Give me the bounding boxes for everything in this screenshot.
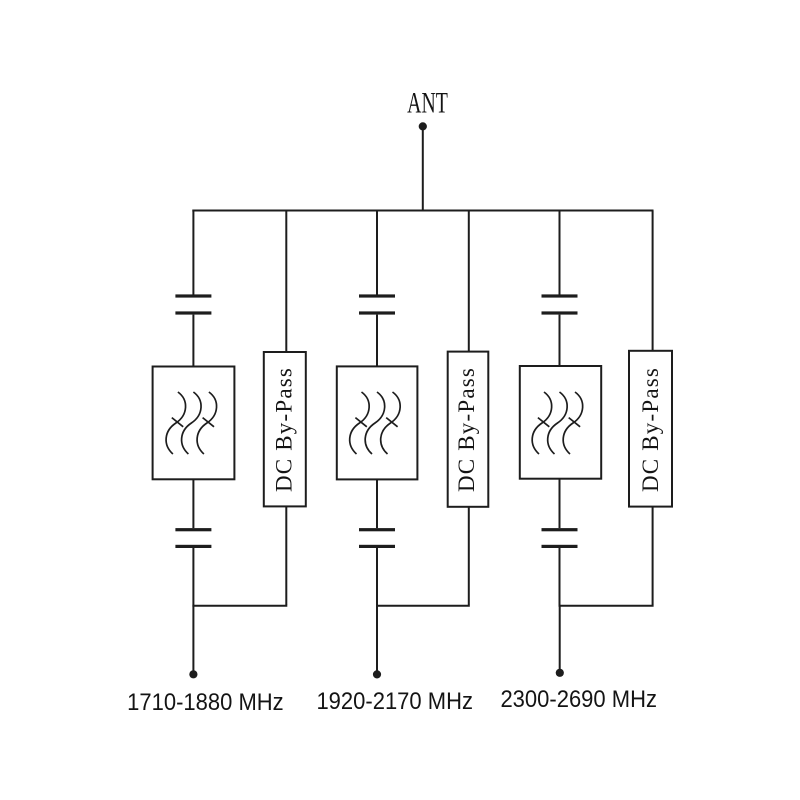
svg-text:DC By-Pass: DC By-Pass [272, 367, 297, 492]
wire junction3 horizontal [559, 605, 654, 607]
wire branch1 bus to C1 [192, 211, 194, 295]
wire D3 to junction [652, 507, 654, 605]
filter FL1 box [153, 367, 235, 480]
block D1 DC By-Pass box [264, 352, 306, 506]
wire D2 to junction [468, 507, 470, 605]
wire C6 to junction [559, 548, 561, 605]
wire ANT stem [422, 128, 424, 212]
filter FL3 wave symbol [532, 392, 582, 454]
svg-text:ANT: ANT [407, 87, 448, 120]
svg-text:1920-2170 MHz: 1920-2170 MHz [316, 687, 473, 714]
wire branch2 bus to C3 [376, 211, 378, 295]
wire FL3 to C6 [559, 479, 561, 528]
capacitor C4 [359, 528, 395, 548]
capacitor C5 [542, 294, 578, 314]
wire branch3 bus to D3 [652, 211, 654, 351]
node ANT dot [419, 122, 427, 130]
wire junction1 to terminal [192, 605, 194, 671]
wire D1 to junction [285, 506, 287, 605]
block D3 DC By-Pass box [629, 351, 672, 507]
filter FL2 wave symbol [350, 392, 400, 454]
wire junction2 horizontal [376, 605, 470, 607]
wire C5 to FL3 [559, 315, 561, 366]
capacitor C6 [542, 528, 578, 548]
svg-text:2300-2690 MHz: 2300-2690 MHz [500, 685, 657, 712]
wire FL2 to C4 [376, 479, 378, 528]
wire branch2 bus to D2 [468, 211, 470, 352]
wire bus [192, 210, 653, 212]
wire C2 to junction [192, 548, 194, 605]
wire C4 to junction [376, 548, 378, 605]
svg-text:DC By-Pass: DC By-Pass [454, 367, 479, 492]
wire FL1 to C2 [192, 479, 194, 528]
wire C1 to FL1 [192, 315, 194, 367]
svg-text:1710-1880 MHz: 1710-1880 MHz [127, 688, 284, 715]
svg-text:DC By-Pass: DC By-Pass [638, 367, 663, 492]
block D2 DC By-Pass box [448, 352, 489, 507]
wire junction2 to terminal [376, 605, 378, 671]
filter FL3 box [520, 366, 601, 479]
capacitor C3 [359, 294, 395, 314]
capacitor C2 [175, 528, 211, 548]
wire C3 to FL2 [376, 315, 378, 367]
node terminal2 dot [373, 670, 381, 678]
filter FL2 box [337, 366, 418, 479]
filter FL1 wave symbol [166, 392, 216, 454]
node terminal1 dot [189, 670, 197, 678]
wire junction3 to terminal [559, 605, 561, 670]
wire branch1 bus to D1 [285, 211, 287, 353]
node terminal3 dot [556, 669, 564, 677]
capacitor C1 [175, 294, 211, 314]
wire branch3 bus to C5 [559, 211, 561, 295]
wire junction1 horizontal [192, 605, 287, 607]
